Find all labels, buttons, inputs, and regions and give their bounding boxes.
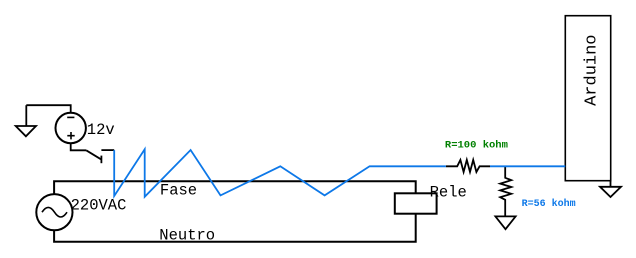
svg-text:220VAC: 220VAC xyxy=(71,197,127,215)
svg-text:Fase: Fase xyxy=(160,181,197,199)
svg-text:12v: 12v xyxy=(87,121,115,139)
svg-text:Arduino: Arduino xyxy=(582,34,601,105)
svg-text:Neutro: Neutro xyxy=(159,226,215,244)
svg-text:R=100 kohm: R=100 kohm xyxy=(445,139,508,151)
svg-text:R=56 kohm: R=56 kohm xyxy=(522,198,576,210)
svg-text:Rele: Rele xyxy=(430,183,467,201)
